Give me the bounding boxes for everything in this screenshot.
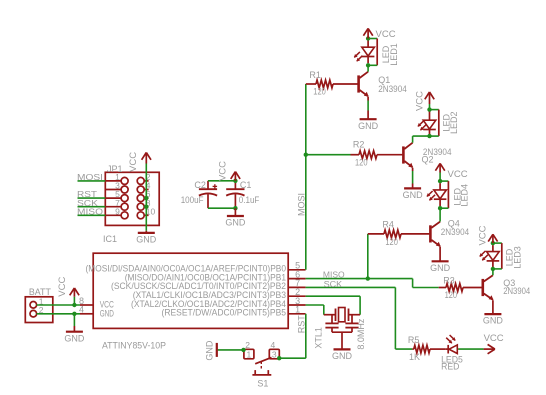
IC1 pin 1 PB5	[162, 305, 306, 318]
svg-text:GND: GND	[205, 340, 215, 361]
JP1 pin 7 pad	[105, 198, 128, 210]
junction R2 tap on MOSI net	[304, 153, 308, 157]
wire LED5 to VCC	[458, 348, 483, 350]
wire BATT pin1 to IC1 VCC	[37, 304, 80, 306]
wire R4 vertical from MISO net	[367, 234, 369, 279]
supply VCC at LED5	[484, 333, 504, 354]
svg-text:R3: R3	[443, 275, 455, 285]
svg-text:GND: GND	[64, 333, 85, 343]
svg-text:S1: S1	[257, 379, 268, 389]
JP1 pin 4 pad	[137, 181, 151, 193]
LED4 bracket	[440, 181, 448, 208]
supply VCC at C1	[218, 161, 241, 181]
LED LED2	[418, 112, 459, 135]
wire RST stub to JP1 pin 5	[77, 189, 105, 199]
junction LED3 anode	[491, 241, 495, 245]
wire S1 to GND	[218, 349, 245, 351]
wire SCK stub to JP1 pin 7	[77, 198, 105, 208]
ground GND at S1 rotated	[205, 340, 217, 361]
wire C2 to C1 top	[208, 180, 235, 182]
LED1 bracket	[368, 39, 377, 66]
svg-text:120: 120	[313, 86, 326, 96]
ground GND at Q4	[430, 260, 451, 273]
svg-text:VCC: VCC	[448, 169, 468, 180]
junction LED2 anode	[427, 107, 431, 111]
IC1 pin 5 PB0	[86, 261, 306, 274]
supply VCC at LED3	[478, 225, 498, 245]
svg-text:RED: RED	[441, 361, 460, 371]
svg-text:100uF: 100uF	[181, 195, 204, 205]
supply VCC at LED1	[363, 28, 395, 39]
svg-text:XTL1: XTL1	[314, 327, 324, 349]
wire Q2 emitter to GND	[412, 168, 414, 184]
wire Q4 collector to LED4	[439, 208, 441, 221]
LED2 bracket	[430, 110, 439, 137]
svg-text:R5: R5	[408, 335, 420, 345]
svg-text:2N3904: 2N3904	[441, 227, 469, 237]
connector BATT box	[25, 287, 53, 322]
supply VCC at LED4	[435, 163, 467, 181]
wire Q1 emitter to GND	[367, 97, 369, 111]
ground GND at Q2	[403, 184, 424, 201]
resistor R3 120	[439, 275, 482, 300]
wire RST net pin1 to S1	[279, 314, 306, 358]
junction R4 tap on MISO net	[366, 276, 370, 280]
junction LED1 anode	[366, 36, 370, 40]
wire Q3 collector to LED3	[492, 269, 494, 275]
supply VCC at BATT	[57, 277, 79, 305]
svg-text:GND: GND	[358, 121, 379, 131]
svg-text:VCC: VCC	[57, 277, 68, 297]
svg-text:1: 1	[247, 350, 252, 360]
resistor R5 1K	[408, 335, 446, 362]
svg-text:R2: R2	[353, 139, 365, 149]
JP1 pin 6 pad	[137, 189, 151, 201]
svg-text:C2: C2	[194, 180, 206, 190]
wire MISO jog down to R3	[413, 279, 439, 288]
svg-text:VCC: VCC	[478, 225, 489, 245]
svg-text:120: 120	[385, 237, 398, 247]
resistor R4 120	[368, 219, 430, 247]
svg-text:2: 2	[245, 340, 250, 350]
IC1 value label ATTINY85V-10P	[102, 340, 166, 351]
IC1 name label	[103, 234, 117, 244]
wire MOSI stub to JP1 pin 1	[77, 172, 105, 182]
svg-text:GND: GND	[136, 235, 157, 245]
junction S1 pin3	[277, 356, 281, 360]
supply VCC at JP1	[128, 152, 151, 172]
svg-text:1K: 1K	[409, 352, 420, 362]
JP1 pin 1 pad	[105, 172, 128, 184]
svg-text:LED2: LED2	[449, 112, 459, 135]
transistor Q3 2N3904	[483, 275, 530, 300]
wire C2 to C1 bottom	[208, 207, 235, 209]
IC1 pin 6 PB1	[125, 269, 306, 282]
ground GND at XTL1	[332, 349, 353, 361]
wire BATT pin2 to IC1 GND	[37, 313, 80, 315]
ground GND at C1	[225, 208, 246, 227]
IC1 pin 3 PB4	[131, 296, 306, 309]
switch S1	[244, 340, 279, 389]
transistor Q2 2N3904	[403, 143, 451, 168]
svg-text:GND: GND	[483, 316, 504, 326]
LED LED1	[354, 41, 399, 66]
junction GND tap	[72, 312, 76, 316]
junction C1 bottom	[233, 206, 237, 210]
junction S1 pin2	[241, 348, 245, 352]
svg-text:IC1: IC1	[103, 234, 117, 244]
junction LED2 cathode	[427, 134, 431, 138]
svg-text:VCC: VCC	[128, 152, 139, 172]
wire Q2 collector to LED2	[413, 136, 430, 143]
LED LED3	[479, 245, 522, 269]
transistor Q1 2N3904	[359, 72, 407, 97]
wire Q1 collector to LED1	[367, 65, 369, 71]
svg-text:MISO: MISO	[323, 270, 345, 279]
svg-text:(RESET/DW/ADC0/PCINT5)PB5: (RESET/DW/ADC0/PCINT5)PB5	[162, 308, 287, 318]
JP1 pin 5 pad	[105, 189, 128, 201]
svg-text:R4: R4	[382, 219, 394, 229]
junction LED4 anode	[438, 179, 442, 183]
resistor R1 120	[306, 70, 358, 96]
svg-text:9: 9	[115, 206, 120, 216]
svg-text:RST: RST	[296, 315, 306, 334]
LED LED4	[427, 183, 470, 206]
JP1 pin 2 pad	[137, 172, 151, 184]
svg-text:1: 1	[295, 305, 300, 315]
svg-text:LED1: LED1	[389, 43, 399, 66]
svg-text:3: 3	[272, 350, 277, 360]
junction LED1 cathode	[366, 63, 370, 67]
svg-text:MOSI: MOSI	[297, 193, 307, 216]
svg-text:Q2: Q2	[422, 155, 434, 165]
svg-text:GND: GND	[225, 218, 246, 228]
svg-text:R1: R1	[309, 70, 321, 80]
svg-text:VCC: VCC	[415, 91, 426, 111]
wire XTAL1 net pin2 to crystal	[306, 296, 361, 315]
JP1 pin 8 pad	[137, 198, 151, 210]
junction JP1 pin 6	[144, 196, 148, 200]
svg-text:MISO: MISO	[77, 207, 103, 217]
junction LED4 cathode	[438, 206, 442, 210]
wire net MOSI vertical PB0	[297, 84, 307, 270]
junction C1 top	[233, 179, 237, 183]
LED3 bracket	[493, 243, 502, 269]
JP1 pin 9 pad	[105, 206, 128, 218]
svg-text:0.1uF: 0.1uF	[239, 195, 260, 205]
JP1 pin 3 pad	[105, 181, 128, 193]
JP1 name label	[107, 164, 123, 174]
ground GND at BATT	[64, 314, 85, 344]
resistor R2 120	[306, 139, 403, 167]
transistor Q4 2N3904	[430, 219, 469, 247]
svg-text:GND: GND	[332, 351, 353, 361]
svg-text:LED3: LED3	[513, 246, 523, 269]
svg-text:2N3904: 2N3904	[503, 286, 530, 296]
svg-text:8.0MHz: 8.0MHz	[356, 318, 366, 350]
svg-text:GND: GND	[100, 308, 115, 318]
connector JP1 box	[105, 172, 159, 225]
supply VCC at LED2	[415, 91, 435, 111]
svg-text:120: 120	[445, 290, 458, 300]
crystal XTL1 8.0MHz resonator	[314, 308, 366, 350]
wire MISO stub to JP1 pin 9	[77, 207, 105, 217]
capacitor C1 0.1uF	[226, 180, 260, 208]
wire net SCK row PB2	[306, 280, 396, 289]
IC IC1 ATTINY85V-10P body	[93, 253, 288, 328]
JP1 pin 10 pad	[137, 206, 155, 218]
ground GND at Q1	[358, 111, 379, 131]
wire net MISO row PB1	[306, 270, 413, 279]
wire Q4 emitter to GND	[439, 247, 441, 261]
svg-text:VCC: VCC	[376, 29, 396, 40]
BATT pin 2 pad	[30, 305, 44, 317]
wire XTAL2 net pin3 to crystal	[306, 305, 324, 315]
svg-text:LED4: LED4	[460, 184, 470, 207]
wire Q3 emitter to GND	[492, 300, 494, 313]
junction VCC tap	[72, 303, 76, 307]
svg-text:C1: C1	[240, 180, 252, 190]
svg-text:GND: GND	[430, 263, 451, 273]
capacitor C2 100uF	[181, 180, 217, 208]
IC1 pin 7 PB2	[111, 278, 306, 291]
svg-text:ATTINY85V-10P: ATTINY85V-10P	[102, 340, 166, 351]
svg-text:MOSI: MOSI	[77, 172, 103, 182]
svg-text:4: 4	[271, 340, 276, 350]
wire JP1 VCC-GND vertical	[145, 164, 147, 231]
ground GND at Q3	[483, 313, 504, 326]
junction LED3 cathode	[491, 267, 495, 271]
BATT pin 1 pad	[30, 296, 44, 308]
IC1 pin 2 PB3	[133, 287, 306, 300]
ground GND at JP1	[136, 231, 157, 245]
svg-text:VCC: VCC	[484, 333, 504, 344]
junction JP1 pin 8	[144, 205, 148, 209]
svg-text:GND: GND	[403, 190, 424, 200]
svg-text:VCC: VCC	[218, 161, 229, 181]
svg-text:SCK: SCK	[324, 280, 343, 289]
wire SCK down to R5	[395, 287, 412, 349]
LED LED5 RED	[441, 335, 463, 371]
svg-text:2N3904: 2N3904	[378, 84, 407, 94]
svg-text:120: 120	[355, 157, 368, 167]
IC1 pin 8 VCC	[79, 296, 114, 310]
IC1 pin 4 GND	[79, 305, 114, 319]
